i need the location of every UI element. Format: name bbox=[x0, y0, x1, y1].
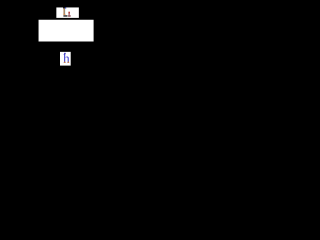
image box 3 (h thumbnail) bbox=[60, 52, 71, 66]
image box 1 (formula "L:" thumbnail) bbox=[56, 7, 79, 17]
glyph colon upper dot bbox=[68, 12, 70, 13]
glyph L foot bbox=[63, 14, 65, 15]
svg-text:h: h bbox=[63, 50, 70, 65]
h foot right orange bbox=[68, 62, 69, 63]
h foot left orange bbox=[64, 62, 65, 63]
glyph L blue dot bbox=[65, 7, 66, 8]
glyph L top serif bbox=[63, 7, 65, 8]
underline dash right (reddish) bbox=[68, 15, 71, 16]
h ascender blue cap bbox=[64, 53, 65, 54]
image box 2 (large blank white) bbox=[39, 20, 94, 42]
underline dash left (dark) bbox=[63, 15, 67, 16]
glyph L stem bbox=[64, 8, 65, 14]
glyph L stem dark core bbox=[63, 8, 66, 14]
glyph colon lower dot bbox=[68, 13, 70, 14]
glyph L stem cyan fringe bbox=[64, 9, 67, 14]
